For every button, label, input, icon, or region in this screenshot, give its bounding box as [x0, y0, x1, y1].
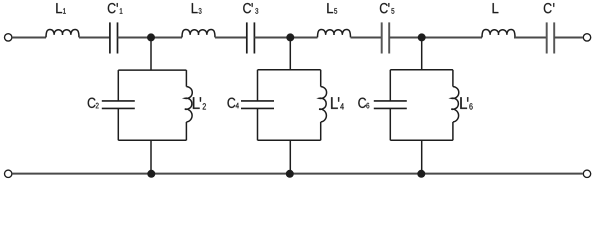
- terminal top-left: [5, 34, 12, 41]
- label C'3: [243, 3, 258, 14]
- tank1 left wire upper: [117, 70, 119, 101]
- tank3 top wire: [390, 69, 453, 71]
- tank3 bottom wire: [390, 139, 453, 141]
- inductor L: [482, 30, 515, 38]
- label C'1: [108, 3, 123, 14]
- capacitor C': [547, 22, 555, 53]
- capacitor C2: [102, 101, 135, 109]
- label L'4: [331, 97, 344, 109]
- label L1: [56, 3, 65, 14]
- tank1 right wire lower: [185, 122, 187, 140]
- node dot bottom 3: [417, 170, 425, 178]
- tank2 bottom wire: [258, 139, 321, 141]
- tank2 right wire lower: [320, 122, 322, 140]
- node dot top 3: [418, 33, 426, 41]
- wire top rail seg4: [215, 37, 247, 39]
- capacitor C4: [241, 101, 274, 109]
- tank2 left wire upper: [257, 70, 259, 101]
- capacitor C6: [374, 101, 407, 109]
- terminal bottom-right: [583, 170, 590, 177]
- label L3: [192, 3, 202, 14]
- node dot top 2: [286, 33, 294, 41]
- wire stem tank3 bottom: [421, 140, 423, 174]
- label C'5: [380, 3, 394, 14]
- tank1 right wire upper: [185, 70, 187, 87]
- label C': [544, 3, 555, 13]
- wire stem tank1 bottom: [150, 140, 152, 174]
- label L'2: [193, 97, 206, 109]
- tank2 right wire upper: [320, 70, 322, 87]
- tank2 left wire lower: [257, 108, 259, 140]
- wire top rail seg9: [554, 37, 583, 39]
- node dot bottom 1: [147, 170, 155, 178]
- wire top rail seg2: [79, 37, 110, 39]
- wire bottom rail: [12, 173, 583, 175]
- inductor L'2: [185, 87, 192, 122]
- capacitor C'1: [110, 22, 118, 53]
- wire top rail seg6: [351, 37, 382, 39]
- wire top rail seg3: [118, 37, 183, 39]
- tank3 right wire upper: [452, 70, 454, 87]
- capacitor C'5: [382, 22, 390, 53]
- label C2: [88, 98, 99, 109]
- tank3 left wire upper: [389, 70, 391, 101]
- wire stem tank2 top: [289, 37, 291, 69]
- node dot top 1: [147, 33, 155, 41]
- tank3 left wire lower: [389, 108, 391, 140]
- tank2 top wire: [258, 69, 321, 71]
- tank1 left wire lower: [117, 108, 119, 140]
- inductor L3: [182, 30, 215, 38]
- node dot bottom 2: [286, 170, 294, 178]
- label C6: [358, 98, 369, 109]
- terminal top-right: [583, 34, 590, 41]
- wire stem tank2 bottom: [289, 140, 291, 174]
- terminal bottom-left: [5, 170, 12, 177]
- inductor L'4: [319, 87, 326, 122]
- wire top rail seg7: [389, 37, 482, 39]
- inductor L5: [318, 30, 351, 38]
- capacitor C'3: [247, 22, 255, 53]
- label L'6: [460, 97, 472, 109]
- wire top rail seg8: [514, 37, 547, 39]
- label L: [493, 3, 499, 13]
- inductor L1: [46, 30, 79, 38]
- tank1 top wire: [118, 69, 186, 71]
- label C4: [228, 98, 239, 109]
- wire stem tank3 top: [421, 37, 423, 69]
- tank1 bottom wire: [118, 139, 186, 141]
- tank3 right wire lower: [452, 122, 454, 140]
- inductor L'6: [451, 87, 458, 122]
- wire stem tank1 top: [150, 37, 152, 70]
- label L5: [327, 3, 337, 14]
- wire top rail seg5: [254, 37, 317, 39]
- wire top rail seg1: [12, 37, 46, 39]
